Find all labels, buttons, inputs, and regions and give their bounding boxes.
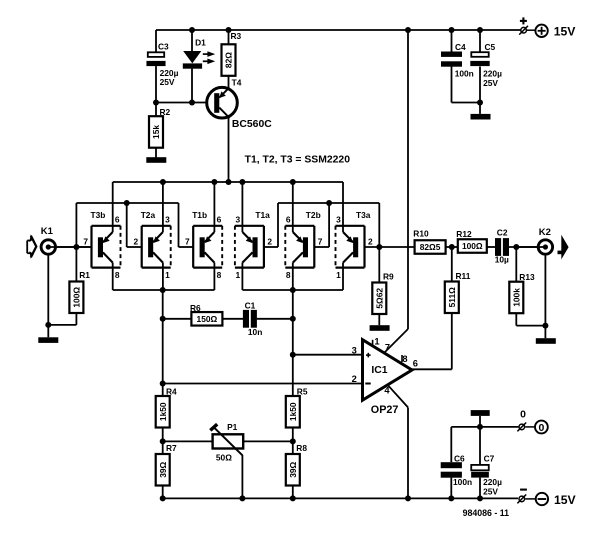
svg-text:10n: 10n [248,327,262,337]
svg-text:82Ω: 82Ω [224,52,234,68]
svg-text:0: 0 [520,410,526,421]
svg-text:BC560C: BC560C [232,119,272,130]
svg-text:1: 1 [236,270,241,280]
svg-text:1k50: 1k50 [288,402,298,421]
svg-text:R10: R10 [413,229,429,239]
svg-text:100k: 100k [512,288,522,307]
svg-text:T1b: T1b [192,210,207,220]
svg-text:511Ω: 511Ω [447,287,457,308]
svg-text:C7: C7 [484,453,495,463]
svg-text:7: 7 [318,237,323,247]
svg-text:3: 3 [336,214,341,224]
svg-text:R6: R6 [190,303,201,313]
svg-text:15V: 15V [554,493,577,507]
svg-text:8: 8 [217,270,222,280]
svg-text:984086 - 11: 984086 - 11 [463,508,510,518]
svg-text:1: 1 [336,270,341,280]
svg-text:2: 2 [267,237,272,247]
svg-text:K1: K1 [41,226,54,237]
svg-text:T2b: T2b [306,210,321,220]
svg-text:R13: R13 [519,272,535,282]
svg-text:82Ω5: 82Ω5 [420,242,441,252]
svg-text:2: 2 [368,237,373,247]
svg-text:P1: P1 [227,422,238,432]
svg-text:0: 0 [538,422,544,434]
svg-text:1: 1 [165,270,170,280]
svg-text:8: 8 [286,270,291,280]
svg-text:T1, T2, T3 = SSM2220: T1, T2, T3 = SSM2220 [245,154,351,165]
svg-text:3: 3 [165,214,170,224]
svg-text:39Ω: 39Ω [158,461,168,477]
svg-text:R12: R12 [456,229,472,239]
svg-text:39Ω: 39Ω [288,461,298,477]
svg-text:6: 6 [413,359,418,369]
svg-text:R8: R8 [296,443,307,453]
svg-text:1: 1 [374,336,379,346]
svg-text:1k50: 1k50 [158,402,168,421]
svg-text:K2: K2 [539,227,551,238]
svg-text:2: 2 [134,237,139,247]
svg-text:R9: R9 [383,271,394,281]
svg-text:C3: C3 [158,42,169,52]
svg-text:7: 7 [185,237,190,247]
svg-text:C1: C1 [245,301,256,311]
svg-text:100n: 100n [453,477,472,487]
svg-text:OP27: OP27 [371,404,399,416]
svg-text:R4: R4 [166,387,177,397]
svg-text:6: 6 [286,214,291,224]
svg-text:R2: R2 [160,107,171,117]
svg-text:7: 7 [83,237,88,247]
svg-text:15V: 15V [554,24,577,38]
svg-text:2: 2 [352,374,357,384]
svg-text:8: 8 [402,354,407,364]
svg-text:R3: R3 [231,31,242,41]
svg-text:7: 7 [385,343,390,353]
svg-text:100Ω: 100Ω [462,241,483,251]
svg-text:4: 4 [384,386,390,396]
svg-text:50Ω: 50Ω [216,453,232,463]
svg-text:T4: T4 [232,77,242,87]
svg-text:T2a: T2a [141,210,156,220]
svg-text:R7: R7 [166,443,177,453]
svg-text:T3b: T3b [91,210,106,220]
svg-text:5Ω62: 5Ω62 [375,288,385,309]
svg-text:150Ω: 150Ω [197,314,218,324]
svg-text:3: 3 [352,346,357,356]
svg-text:100Ω: 100Ω [72,287,82,308]
svg-text:6: 6 [115,214,120,224]
svg-text:R1: R1 [79,270,90,280]
svg-text:25V: 25V [483,486,498,496]
svg-text:C6: C6 [454,453,465,463]
svg-text:R5: R5 [297,387,308,397]
svg-text:T3a: T3a [356,210,371,220]
svg-text:D1: D1 [195,37,206,47]
svg-text:C4: C4 [455,42,466,52]
svg-text:IC1: IC1 [371,365,387,376]
svg-text:100n: 100n [455,69,474,79]
svg-text:10µ: 10µ [495,254,509,264]
svg-text:25V: 25V [160,77,175,87]
svg-text:C2: C2 [497,227,508,237]
svg-text:8: 8 [115,270,120,280]
svg-text:C5: C5 [485,42,496,52]
svg-text:3: 3 [236,214,241,224]
svg-text:6: 6 [217,214,222,224]
svg-text:T1a: T1a [255,210,270,220]
svg-text:R11: R11 [456,271,471,281]
svg-text:25V: 25V [483,78,498,88]
svg-text:15k: 15k [151,125,161,139]
